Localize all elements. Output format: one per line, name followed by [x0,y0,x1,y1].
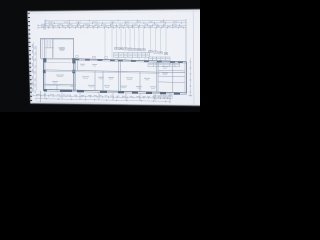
spiral binding ticks on left paper edge [28,13,32,101]
top dim string 4 (dense) [38,27,186,29]
ticks of bottom dim string 1 [33,95,168,100]
leaders from bottom wall to dims [45,91,155,101]
ticks of top dim string 2 [45,22,182,24]
left terminal leader of top dims [44,19,46,30]
white drawing paper sheet [28,9,202,106]
main west wall (lower) [44,58,45,91]
wing room small label box [61,48,65,51]
dim text above string 2 [48,21,177,22]
leader lines right of cluster [149,28,168,54]
left vertical dim string [32,42,36,93]
wing top wall [40,38,73,39]
bottom wall hatch segments [44,89,180,94]
west wall pier at corridor [43,70,46,73]
row of label boxes above top wall [114,53,150,58]
bottom exterior wall [44,89,187,94]
faint page edge line at right [192,10,195,106]
row of label boxes right above wall [149,57,171,61]
top wall window hatches [75,59,183,63]
top dim string 1 (top) [46,19,186,22]
leader cluster with tags [115,28,145,50]
right exterior wall [185,62,187,94]
left room interior line [46,61,71,64]
ticks of top dim string 1 (top) [46,19,164,22]
north wall west part (wing bottom) [41,58,74,59]
dim text above string 4 [41,25,182,28]
bottom dim string 2 [36,99,170,102]
label boxes below bottom wall right [154,95,173,98]
interior vertical partitions [76,60,173,92]
top dim string 2 [45,22,186,24]
mid leaders [105,28,112,59]
gap leaders from box row to wall [118,57,145,61]
ticks of top dim string 3 [38,24,179,26]
left room south partition [44,84,73,91]
ticks of bottom dim string 2 [36,98,166,103]
row of label boxes below wall right [148,63,180,66]
dim text above string 3 [41,23,177,26]
top dim string 3 [38,24,186,26]
main top wall [73,59,186,63]
pier blob at wing-main junction [72,58,75,63]
wing stairs [45,39,54,59]
pier blob at wing wall corridor junction [72,70,75,73]
right vertical dim string [189,58,193,97]
bottom right terminal leader [169,93,171,104]
corridor wall [45,70,185,74]
bottom dim string 1 [33,96,170,99]
right terminal leader down to building [185,19,187,62]
wing west wall [41,38,43,58]
bottom left terminal leader [39,91,41,102]
black photo background [0,0,200,112]
bottom dim string 3 (faint) [36,102,110,103]
text above bottom dim string 1 [36,94,167,97]
paper left edge shading [28,11,33,103]
small tags above top wall west part [76,56,108,59]
room label texts [52,48,168,89]
ticks of top dim string 4 (dense) [38,27,183,29]
right stack horizontal partitions [158,70,185,82]
paper top edge shadow line [28,11,200,13]
pier blob at west junction [43,58,46,62]
wing right wall [73,38,74,91]
